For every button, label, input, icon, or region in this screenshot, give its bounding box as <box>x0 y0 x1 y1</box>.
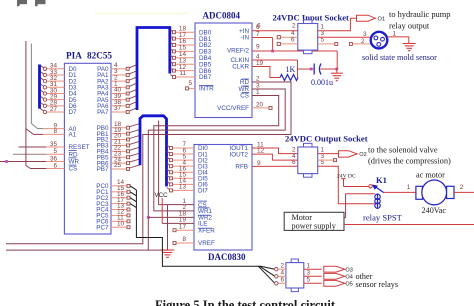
svg-text:O5: O5 <box>345 282 352 288</box>
svg-text:CS: CS <box>240 93 249 100</box>
svg-text:VREF: VREF <box>198 240 215 247</box>
svg-text:VREF/2: VREF/2 <box>227 47 250 54</box>
svg-text:Figure 5 In the test control c: Figure 5 In the test control circuit <box>155 298 335 306</box>
svg-text:RD: RD <box>240 79 250 86</box>
svg-text:11: 11 <box>179 70 186 77</box>
svg-text:2: 2 <box>280 263 284 270</box>
svg-text:1K: 1K <box>286 65 296 74</box>
svg-text:1: 1 <box>307 263 311 270</box>
svg-text:PB7: PB7 <box>97 166 109 173</box>
svg-text:O2: O2 <box>359 152 366 158</box>
svg-text:1: 1 <box>407 184 411 191</box>
svg-text:3: 3 <box>307 270 311 277</box>
svg-text:12: 12 <box>257 148 265 155</box>
svg-text:9: 9 <box>257 160 261 167</box>
svg-text:17: 17 <box>179 223 187 230</box>
svg-text:8: 8 <box>182 236 186 243</box>
svg-text:DI7: DI7 <box>198 188 208 195</box>
svg-text:D7: D7 <box>69 109 78 116</box>
svg-text:ADC0804: ADC0804 <box>203 11 241 21</box>
svg-text:6: 6 <box>280 277 284 284</box>
svg-text:relay SPST: relay SPST <box>363 213 403 223</box>
svg-text:INTR: INTR <box>199 86 214 93</box>
svg-text:6: 6 <box>291 37 295 44</box>
svg-text:(drives the compression): (drives the compression) <box>368 157 451 166</box>
svg-text:CLKR: CLKR <box>232 64 249 71</box>
svg-text:-IN: -IN <box>241 35 250 42</box>
svg-text:8: 8 <box>53 128 57 135</box>
svg-text:24V DC: 24V DC <box>337 174 356 180</box>
svg-text:to the solenoid valve: to the solenoid valve <box>368 146 438 155</box>
svg-text:19: 19 <box>256 60 264 67</box>
svg-text:82C55: 82C55 <box>87 51 112 61</box>
svg-text:10: 10 <box>117 220 125 227</box>
svg-text:RESET: RESET <box>69 144 90 151</box>
svg-text:K1: K1 <box>376 175 387 185</box>
svg-text:7: 7 <box>256 31 260 38</box>
svg-text:2: 2 <box>460 184 464 191</box>
svg-text:O4: O4 <box>345 275 352 281</box>
svg-text:PA7: PA7 <box>97 109 109 116</box>
svg-text:240Vac: 240Vac <box>422 206 447 215</box>
svg-text:2: 2 <box>292 23 296 30</box>
svg-text:relay output: relay output <box>389 22 430 31</box>
svg-text:24VDC Output Socket: 24VDC Output Socket <box>285 134 368 144</box>
svg-text:27: 27 <box>50 106 58 113</box>
svg-text:PIA: PIA <box>66 51 82 61</box>
svg-text:5: 5 <box>188 80 192 87</box>
svg-text:to hydraulic pump: to hydraulic pump <box>389 10 450 19</box>
svg-text:4: 4 <box>280 270 284 277</box>
svg-text:1: 1 <box>256 89 260 96</box>
svg-text:3: 3 <box>363 31 367 38</box>
svg-text:DB7: DB7 <box>199 74 212 81</box>
svg-text:A1: A1 <box>69 132 77 139</box>
svg-text:DAC0830: DAC0830 <box>208 252 246 262</box>
svg-text:9: 9 <box>256 44 260 51</box>
svg-text:13: 13 <box>179 184 187 191</box>
svg-text:25: 25 <box>114 162 122 169</box>
svg-text:20: 20 <box>256 101 264 108</box>
svg-text:2: 2 <box>256 76 260 83</box>
svg-text:VCC: VCC <box>155 192 169 199</box>
svg-text:sensor relays: sensor relays <box>356 280 399 289</box>
svg-text:CS: CS <box>69 166 78 173</box>
svg-text:VCC/VREF: VCC/VREF <box>217 105 249 112</box>
svg-text:IOUT2: IOUT2 <box>229 151 248 158</box>
svg-text:5: 5 <box>307 277 311 284</box>
svg-text:2: 2 <box>361 38 365 45</box>
svg-text:6: 6 <box>257 23 261 30</box>
svg-text:0.001u: 0.001u <box>311 78 333 87</box>
svg-text:PC7: PC7 <box>96 224 109 231</box>
svg-text:power supply: power supply <box>292 221 337 230</box>
svg-text:ac motor: ac motor <box>416 170 445 179</box>
svg-text:WR: WR <box>69 159 80 166</box>
svg-text:O3: O3 <box>345 268 352 274</box>
svg-text:6: 6 <box>292 159 296 166</box>
svg-text:O1: O1 <box>378 16 385 22</box>
svg-text:solid state mold sensor: solid state mold sensor <box>362 53 437 62</box>
svg-text:RD: RD <box>69 152 79 159</box>
svg-text:5: 5 <box>321 37 325 44</box>
svg-text:37: 37 <box>114 105 122 112</box>
svg-text:RFB: RFB <box>235 164 248 171</box>
